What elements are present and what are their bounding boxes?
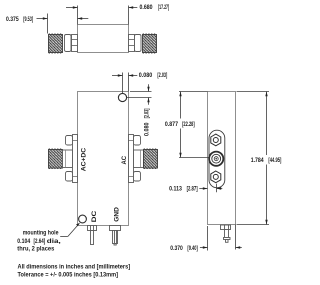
svg-text:AC: AC [121,155,128,164]
leader line to mounting hole [60,224,79,237]
top view right connector cylinder [135,35,142,52]
svg-text:0.370: 0.370 [170,245,183,252]
mounting hole bottom-left [79,215,87,223]
svg-text:0.080: 0.080 [139,72,153,79]
connector flange obround [209,130,225,188]
top view left connector thread barrel (hatched) [49,35,63,53]
front view left connector flange [73,135,78,183]
top view left connector flange band section [72,35,78,52]
svg-text:[9.53]: [9.53] [23,16,33,23]
side view body [208,92,236,225]
svg-text:0.104: 0.104 [17,238,30,245]
front view left connector plain barrel [63,150,73,168]
thread crest bumps top view left [49,34,157,53]
svg-text:GND: GND [113,207,120,222]
front view left bottom screw head [66,172,78,182]
svg-text:[2.64]: [2.64] [34,238,46,245]
front view right connector hatched thread barrel [144,150,158,169]
svg-text:thru, 2 places: thru, 2 places [17,246,55,253]
front view left top screw head [66,136,78,146]
GND pin base [110,226,121,231]
svg-text:[9.40]: [9.40] [187,245,197,252]
svg-text:mounting hole: mounting hole [23,229,59,236]
svg-text:[44.95]: [44.95] [268,157,281,164]
svg-text:AC+DC: AC+DC [80,147,87,171]
front view left connector: hatched thread barrel [49,150,63,169]
dimension 0.680 [17.27] (top view body length) [66,6,137,25]
svg-text:[2.03]: [2.03] [143,109,150,119]
svg-text:1.784: 1.784 [251,157,265,164]
svg-text:dia,: dia, [47,238,61,245]
dimension 0.080 [2.03] horizontal (hole to right edge) [112,73,137,94]
dimension 0.113 [2.87] [199,184,222,193]
mounting hole top-right [118,93,126,101]
svg-text:All dimensions in inches and [: All dimensions in inches and [millimeter… [18,263,131,270]
top view body [78,25,129,53]
front view body [78,92,129,226]
svg-text:DC: DC [91,210,98,222]
dimension 0.375 [9.53] (top view connector length) [37,14,89,34]
svg-text:0.877: 0.877 [165,121,179,128]
svg-text:[2.03]: [2.03] [157,72,167,79]
dimension 0.877 [22.28] [179,92,209,158]
svg-text:Tolerance = +/- 0.005 inches: Tolerance = +/- 0.005 inches [0.13mm] [18,272,119,279]
svg-text:0.680: 0.680 [140,4,154,11]
dimension 0.080 [2.03] vertical (top edge to hole) [127,84,152,105]
front view right connector plain barrel [134,150,144,168]
top view left connector cylinder [65,35,72,52]
front view right connector flange [129,135,134,183]
DC pin [91,231,94,245]
dimension 0.370 [9.40] [200,225,242,251]
svg-text:[2.87]: [2.87] [187,186,198,193]
side view pin tabs [221,225,231,230]
top view right connector flange band section [129,35,135,52]
svg-text:[22.28]: [22.28] [182,121,195,128]
front view right top screw head [129,136,141,146]
DC pin base [88,226,97,231]
bottom flange screw hex [211,171,221,183]
dimension 1.784 [44.95] [237,92,270,225]
thread crest bumps front view [49,149,158,169]
top view right connector thread barrel (hatched) [143,35,157,53]
side view pin [224,230,231,243]
svg-text:[17.27]: [17.27] [158,4,169,11]
center connector face circles [209,152,223,166]
svg-text:0.375: 0.375 [6,16,19,23]
GND pin [113,231,118,246]
svg-text:0.113: 0.113 [169,186,182,193]
svg-text:0.080: 0.080 [143,122,150,136]
top flange screw hex [211,134,221,146]
front view right bottom screw head [129,172,141,182]
